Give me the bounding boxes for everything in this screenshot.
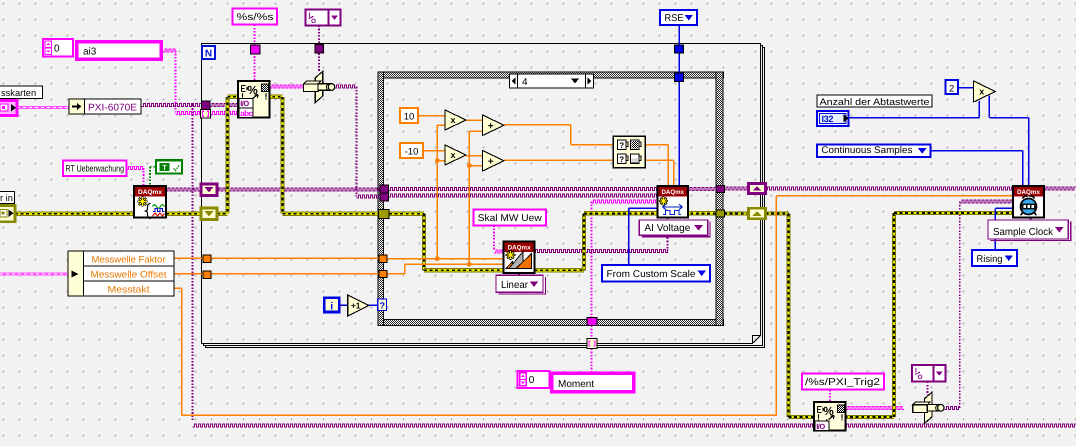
- svg-text:DAQmx: DAQmx: [1017, 189, 1040, 196]
- svg-text:4: 4: [522, 77, 528, 88]
- svg-text:O: O: [918, 374, 923, 381]
- svg-text:Continuous Samples: Continuous Samples: [821, 145, 912, 156]
- svg-text:0: 0: [529, 375, 535, 386]
- svg-text:DAQmx: DAQmx: [138, 189, 162, 196]
- svg-text:O: O: [311, 18, 316, 25]
- svg-text:RT Ueberwachung: RT Ueberwachung: [66, 164, 125, 174]
- svg-text:N: N: [205, 49, 212, 60]
- svg-text:Skal MW Uew: Skal MW Uew: [478, 213, 543, 224]
- svg-text:Messwelle Offset: Messwelle Offset: [91, 269, 167, 280]
- svg-text:RSE: RSE: [665, 13, 684, 24]
- svg-text:+: +: [488, 156, 494, 167]
- svg-text:x: x: [450, 150, 455, 160]
- svg-text:Sample Clock: Sample Clock: [993, 227, 1054, 238]
- svg-text:ai3: ai3: [83, 47, 97, 58]
- svg-text:-10: -10: [405, 147, 419, 158]
- svg-text:2: 2: [949, 84, 954, 95]
- svg-text:%s/%s: %s/%s: [237, 12, 274, 23]
- svg-text:AI Voltage: AI Voltage: [644, 223, 690, 234]
- svg-text:?: ?: [379, 301, 385, 311]
- svg-text:T: T: [162, 163, 167, 172]
- svg-text:Anzahl der Abtastwerte: Anzahl der Abtastwerte: [820, 97, 930, 108]
- svg-text:+: +: [488, 121, 494, 132]
- svg-text:!: !: [841, 413, 844, 423]
- svg-text:?: ?: [619, 155, 624, 164]
- svg-text:PXI-6070E: PXI-6070E: [88, 102, 137, 113]
- svg-text:/%s/PXI_Trig2: /%s/PXI_Trig2: [805, 377, 880, 388]
- svg-text:+1: +1: [351, 301, 361, 311]
- svg-text:From Custom Scale: From Custom Scale: [607, 269, 697, 280]
- svg-text:Messwelle Faktor: Messwelle Faktor: [92, 254, 166, 265]
- svg-text:I32: I32: [822, 114, 834, 124]
- svg-text:I/O: I/O: [816, 422, 825, 431]
- svg-text:10: 10: [404, 112, 415, 123]
- svg-text:Messtakt: Messtakt: [108, 284, 150, 295]
- svg-text:?: ?: [619, 141, 624, 150]
- svg-text:sskarten: sskarten: [1, 88, 36, 98]
- svg-text:i: i: [330, 301, 333, 313]
- svg-text:Rising: Rising: [977, 254, 1003, 265]
- svg-text:I/O: I/O: [240, 99, 249, 108]
- svg-text:r in: r in: [0, 193, 13, 203]
- svg-text:0: 0: [54, 44, 60, 55]
- svg-text:x: x: [450, 115, 455, 125]
- svg-text:!: !: [265, 92, 268, 102]
- svg-text:Moment: Moment: [558, 379, 594, 390]
- svg-text:Linear: Linear: [501, 280, 529, 291]
- svg-text:x: x: [979, 87, 984, 97]
- svg-text:abc: abc: [240, 109, 253, 118]
- svg-text:DAQmx: DAQmx: [662, 189, 685, 196]
